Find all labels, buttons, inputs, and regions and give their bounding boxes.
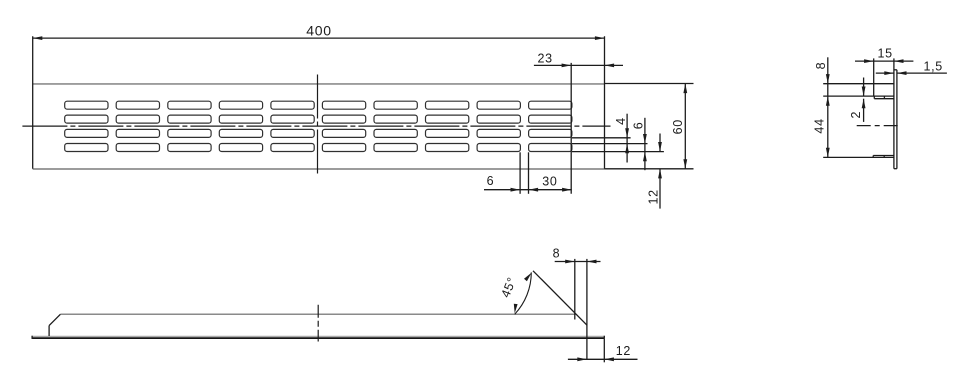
- svg-text:400: 400: [306, 23, 331, 39]
- bottom view: left end vertical bend: [48, 326, 50, 336]
- dimension 12: extension line at strip end: [603, 339, 605, 362]
- side view: bottom tab divider tick: [883, 156, 885, 158]
- dimension 15: dimension line: [855, 60, 913, 62]
- extension line: part top edge to 60-dim: [605, 83, 694, 85]
- dimensions 8 and 44: shared dimension line: [827, 57, 829, 157]
- extension line B: slot row 4 top: [572, 143, 648, 145]
- svg-text:4: 4: [614, 117, 628, 125]
- top view: vertical centerline: [317, 75, 319, 176]
- vent slot column 1 (4 slots): [65, 101, 108, 151]
- dimension 4 (row gap): dimension line: [626, 114, 628, 163]
- top view: grille outline top edge: [33, 83, 605, 85]
- dimension 1,5: dimension line right part: [897, 72, 947, 74]
- extension line: part bottom edge to 60/12-dim: [605, 168, 694, 170]
- dimension 6 (slot height): dimension line: [644, 118, 646, 170]
- bottom view: right end flap at 45 deg: [533, 271, 587, 325]
- side view: top edge line H1: [823, 83, 894, 85]
- angle 45 deg: arc with arrows: [515, 272, 532, 314]
- dimension 8 (flap width): dimension line: [555, 261, 601, 263]
- top view: grille left edge / 400 extension line: [32, 36, 34, 169]
- side view: top tab fold line H3: [823, 95, 894, 97]
- svg-text:2: 2: [849, 111, 863, 119]
- vent slot column 2 (4 slots): [116, 101, 159, 151]
- svg-text:6: 6: [631, 122, 645, 130]
- vent slot column 6 (4 slots): [322, 101, 365, 151]
- svg-text:45°: 45°: [498, 275, 519, 300]
- dimension 6 (slot gap): extension line right: [528, 152, 530, 194]
- dimension 8/12 shared extension line: [586, 259, 588, 360]
- dimension 2: dimension line lower: [863, 99, 865, 122]
- vent slot column 9 (4 slots): [477, 101, 520, 151]
- svg-text:44: 44: [812, 118, 826, 133]
- svg-text:8: 8: [553, 247, 561, 261]
- bottom view: vertical centerline: [317, 305, 319, 342]
- bottom view: raised face line: [61, 313, 576, 315]
- dimension 23: extension line at slot end: [570, 63, 572, 194]
- top view: grille outline bottom edge: [33, 168, 605, 170]
- dimension 8 (flap width): extension line left: [574, 259, 576, 320]
- side view: top tab underside H4: [874, 98, 894, 100]
- svg-text:12: 12: [616, 344, 631, 358]
- side view: bottom tab fold line H6: [823, 156, 894, 158]
- vent slot column 10 (4 slots): [529, 101, 572, 151]
- side view: bottom tab top H5: [873, 155, 894, 157]
- svg-text:6: 6: [487, 174, 495, 188]
- extension line C: slot row 4 bottom: [572, 151, 664, 153]
- svg-text:60: 60: [671, 119, 685, 134]
- vent slot column 3 (4 slots): [168, 101, 211, 151]
- bottom view: base strip right end: [603, 336, 605, 339]
- bottom view: left end 45-deg chamfer: [49, 314, 60, 325]
- vent slot column 7 (4 slots): [374, 101, 417, 151]
- vent slot column 8 (4 slots): [426, 101, 469, 151]
- dimension 12 (edge offset): dimension line: [659, 134, 661, 152]
- dimension 6 (slot gap): extension line left: [519, 152, 521, 194]
- dimension 60 (width): dimension line: [684, 84, 686, 169]
- dimensions 6 and 30: dimension line: [484, 189, 572, 191]
- side view: sheet left face / 15 extension line: [893, 58, 895, 168]
- dimension 12 (flap offset): dimension line: [568, 358, 638, 360]
- svg-text:23: 23: [538, 52, 553, 66]
- svg-text:8: 8: [814, 62, 828, 70]
- dimension 1,5: dimension line left part: [876, 72, 894, 74]
- vent slot column 4 (4 slots): [219, 101, 262, 151]
- extension line A: slot row 3 bottom: [572, 137, 631, 139]
- svg-text:1,5: 1,5: [923, 59, 942, 73]
- vent slot column 5 (4 slots): [271, 101, 314, 151]
- svg-text:12: 12: [646, 189, 660, 204]
- bottom view: base strip top edge: [32, 335, 604, 337]
- dimension 2: dimension line upper: [863, 78, 865, 97]
- dimension 23: dimension line: [534, 64, 623, 66]
- side view: profile left tab edge / 15 extension line: [873, 58, 875, 96]
- side view: sheet right face: [896, 70, 898, 169]
- svg-text:15: 15: [877, 47, 892, 61]
- side view: centerline: [857, 125, 900, 127]
- side view: top tab divider tick: [883, 96, 885, 99]
- bottom view: base strip left end: [31, 336, 33, 339]
- dimension 400: dimension line: [33, 37, 605, 39]
- side view: sheet bottom end: [894, 168, 897, 170]
- top view: grille right edge / 400 extension line: [604, 36, 606, 169]
- top view: horizontal centerline: [22, 125, 610, 127]
- side view: sheet top end: [894, 69, 897, 71]
- bottom view: base strip bottom edge: [32, 337, 604, 339]
- svg-text:30: 30: [542, 174, 557, 188]
